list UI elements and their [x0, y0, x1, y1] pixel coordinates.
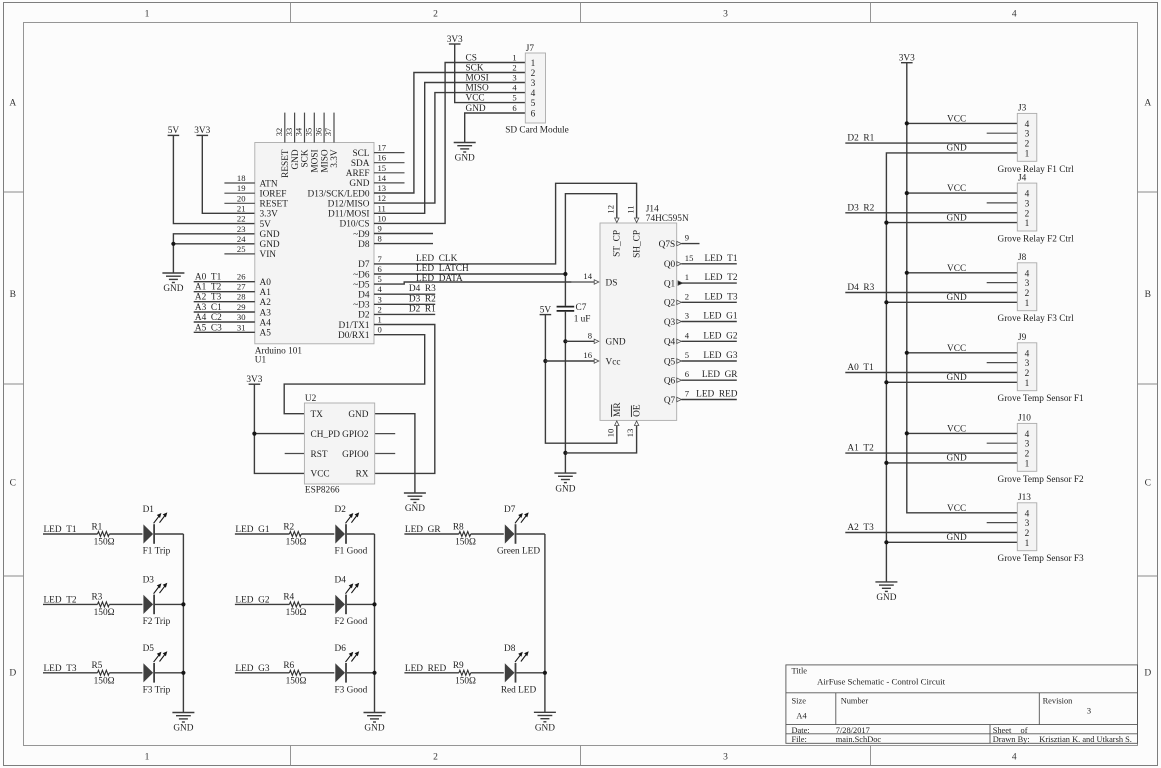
svg-text:A: A — [1144, 99, 1151, 109]
svg-text:DS: DS — [606, 278, 618, 288]
svg-text:SDA: SDA — [351, 159, 370, 169]
wire — [471, 672, 504, 674]
svg-text:8: 8 — [588, 330, 592, 340]
svg-text:A4: A4 — [796, 711, 807, 720]
svg-text:A0 T1: A0 T1 — [847, 363, 874, 373]
svg-text:LED RED: LED RED — [696, 390, 738, 400]
wire ~D9 stub — [374, 233, 433, 235]
svg-text:2: 2 — [433, 753, 438, 763]
svg-text:GND: GND — [291, 149, 301, 169]
net D3_R2 to J4 — [845, 203, 1017, 213]
svg-text:D2: D2 — [335, 505, 347, 515]
svg-text:GND: GND — [947, 373, 967, 383]
svg-text:A3: A3 — [260, 308, 272, 318]
LED D3 — [143, 575, 171, 627]
svg-text:Q1: Q1 — [664, 279, 676, 289]
svg-text:U1: U1 — [255, 356, 267, 366]
svg-text:11: 11 — [625, 205, 635, 213]
pin 3 stub J4 — [987, 202, 1018, 204]
svg-text:D4 R3: D4 R3 — [847, 283, 874, 293]
junction — [884, 221, 888, 225]
svg-text:1: 1 — [531, 59, 536, 69]
wire GND J7 pin6 — [465, 113, 526, 143]
net VCC label J4 — [947, 184, 966, 194]
svg-text:GND: GND — [173, 724, 193, 734]
svg-text:R3: R3 — [91, 593, 102, 603]
svg-text:F3 Good: F3 Good — [335, 685, 368, 695]
svg-text:F1 Good: F1 Good — [335, 547, 368, 557]
svg-text:150Ω: 150Ω — [455, 677, 476, 687]
wire OE riser to GND — [565, 426, 636, 453]
svg-text:VCC: VCC — [947, 504, 966, 514]
net D2_R1 — [374, 304, 436, 314]
svg-text:D1: D1 — [143, 505, 155, 515]
wire GND pin 8 — [565, 340, 595, 342]
wire GND to J10 — [886, 462, 1017, 464]
wire — [109, 533, 142, 535]
net LED_CLK wire D7 to SH_CP — [374, 183, 637, 264]
svg-text:MOSI: MOSI — [466, 74, 489, 84]
svg-text:3: 3 — [378, 294, 382, 304]
wire — [347, 603, 375, 605]
svg-text:13: 13 — [378, 183, 387, 193]
net LED_G3 — [235, 664, 290, 674]
svg-text:F1 Trip: F1 Trip — [143, 547, 171, 557]
svg-text:2: 2 — [1025, 209, 1030, 219]
wire GND rail (grove) — [886, 153, 1017, 582]
svg-text:10: 10 — [605, 429, 615, 438]
svg-text:2: 2 — [531, 69, 536, 79]
svg-text:2: 2 — [1025, 289, 1030, 299]
svg-text:3: 3 — [723, 753, 728, 763]
svg-text:D10/CS: D10/CS — [340, 220, 370, 230]
svg-text:3: 3 — [723, 9, 728, 19]
svg-text:5: 5 — [378, 274, 382, 284]
svg-text:J10: J10 — [1018, 414, 1031, 424]
net GND label J8 — [947, 293, 967, 303]
ground (ESP8266) — [404, 493, 426, 514]
svg-text:3.3V: 3.3V — [260, 210, 279, 220]
net A4_C2 — [194, 313, 255, 323]
junction — [905, 121, 909, 125]
svg-text:J3: J3 — [1018, 104, 1027, 114]
LED D1 — [143, 505, 171, 557]
wire D0/RX1 to ESP TX — [284, 335, 425, 414]
svg-text:LED G1: LED G1 — [235, 525, 269, 535]
svg-text:GND: GND — [947, 293, 967, 303]
wire LED column 1 ground rail — [182, 534, 184, 713]
power 3V3 (grove rail) — [899, 54, 915, 64]
pin GPIO0 stub — [375, 453, 396, 455]
net A1_T2 — [194, 283, 255, 293]
svg-text:Drawn By:: Drawn By: — [993, 735, 1030, 744]
svg-text:4: 4 — [1025, 430, 1030, 440]
svg-text:3.3V: 3.3V — [330, 149, 340, 168]
connector J8 Grove Relay F3 Ctrl — [998, 253, 1075, 324]
resistor R5 150ohm — [91, 661, 114, 686]
svg-text:LED G3: LED G3 — [703, 351, 737, 361]
svg-text:F2 Trip: F2 Trip — [143, 617, 171, 627]
svg-text:R2: R2 — [283, 522, 294, 532]
svg-text:5V: 5V — [540, 305, 552, 315]
svg-text:D13/SCK/LED0: D13/SCK/LED0 — [308, 189, 370, 199]
svg-text:11: 11 — [378, 203, 386, 213]
wire 3V3 to CH_PD and VCC — [254, 384, 304, 473]
svg-text:J13: J13 — [1018, 493, 1031, 503]
svg-text:22: 22 — [237, 214, 246, 224]
power 3V3 (Arduino) — [194, 126, 210, 136]
junction — [543, 359, 547, 363]
svg-text:IOREF: IOREF — [260, 190, 287, 200]
net LED_RED — [404, 664, 459, 674]
Arduino 101 U1 — [224, 113, 404, 366]
svg-text:LED G2: LED G2 — [703, 331, 737, 341]
svg-text:D11/MOSI: D11/MOSI — [328, 210, 370, 220]
svg-text:LED G2: LED G2 — [235, 595, 269, 605]
svg-text:2: 2 — [378, 304, 382, 314]
svg-text:2: 2 — [433, 9, 438, 19]
svg-text:29: 29 — [237, 302, 246, 312]
junction — [372, 671, 376, 675]
svg-text:A5: A5 — [260, 329, 272, 339]
wire — [109, 603, 142, 605]
svg-text:LED T2: LED T2 — [704, 273, 737, 283]
svg-text:D12/MISO: D12/MISO — [328, 199, 370, 209]
junction — [884, 300, 888, 304]
svg-text:main.SchDoc: main.SchDoc — [836, 735, 882, 744]
net A5_C3 — [194, 323, 255, 333]
svg-text:MOSI: MOSI — [311, 149, 321, 172]
net A2_T3 to J13 — [845, 523, 1017, 533]
svg-text:~D3: ~D3 — [353, 301, 370, 311]
svg-text:of: of — [1021, 726, 1028, 735]
svg-text:1: 1 — [1025, 299, 1030, 309]
svg-text:4: 4 — [1025, 120, 1030, 130]
svg-text:AREF: AREF — [346, 169, 370, 179]
wire VCC to J10 — [907, 432, 1018, 434]
svg-text:3V3: 3V3 — [899, 54, 915, 64]
svg-text:74HC595N: 74HC595N — [646, 214, 689, 224]
svg-text:5V: 5V — [260, 220, 272, 230]
svg-text:~D9: ~D9 — [353, 230, 370, 240]
net VCC label J3 — [947, 114, 966, 124]
svg-text:4: 4 — [1025, 269, 1030, 279]
net LED_GR from Q6 — [677, 369, 738, 382]
svg-text:4: 4 — [1025, 349, 1030, 359]
junction — [905, 351, 909, 355]
svg-text:150Ω: 150Ω — [94, 677, 115, 687]
svg-text:2: 2 — [1025, 140, 1030, 150]
svg-text:ATN: ATN — [260, 179, 278, 189]
svg-text:150Ω: 150Ω — [94, 608, 115, 618]
svg-text:LED CLK: LED CLK — [416, 254, 458, 264]
svg-text:VCC: VCC — [311, 470, 330, 480]
svg-text:4: 4 — [1025, 509, 1030, 519]
svg-text:28: 28 — [237, 292, 246, 302]
svg-text:LED T3: LED T3 — [704, 292, 737, 302]
ground (SD card) — [454, 143, 476, 164]
LED D7 — [497, 505, 540, 557]
svg-text:3: 3 — [531, 79, 536, 89]
svg-text:Size: Size — [792, 697, 807, 706]
wire D8 stub — [374, 243, 433, 245]
svg-text:U2: U2 — [305, 394, 317, 404]
wire ESP GND — [375, 414, 415, 493]
svg-text:LED T1: LED T1 — [704, 254, 737, 264]
svg-text:1 uF: 1 uF — [574, 315, 591, 325]
svg-text:30: 30 — [237, 312, 246, 322]
LED D2 — [335, 505, 368, 557]
svg-text:A3 C1: A3 C1 — [195, 303, 222, 313]
svg-text:ESP8266: ESP8266 — [305, 486, 340, 496]
svg-text:150Ω: 150Ω — [286, 677, 307, 687]
svg-text:SD Card Module: SD Card Module — [505, 125, 569, 135]
svg-text:VCC: VCC — [466, 94, 485, 104]
svg-text:4: 4 — [531, 89, 536, 99]
LED D4 — [335, 575, 368, 627]
net GND label J10 — [947, 454, 967, 464]
wire VCC to J3 — [907, 122, 1018, 124]
svg-text:D4: D4 — [358, 291, 370, 301]
svg-text:Grove Relay F3 Ctrl: Grove Relay F3 Ctrl — [998, 314, 1075, 324]
svg-text:32: 32 — [274, 128, 284, 137]
wire — [301, 603, 334, 605]
pin GPIO2 stub — [375, 433, 396, 435]
pin 3 stub J10 — [987, 442, 1018, 444]
svg-text:D1/TX1: D1/TX1 — [339, 321, 370, 331]
svg-text:18: 18 — [237, 173, 246, 183]
svg-text:3V3: 3V3 — [194, 126, 210, 136]
wire VCC to J9 — [907, 352, 1018, 354]
svg-text:12: 12 — [606, 205, 616, 214]
net GND label J4 — [947, 213, 967, 223]
svg-text:LED DATA: LED DATA — [416, 274, 463, 284]
svg-text:CH_PD: CH_PD — [311, 430, 341, 440]
svg-text:35: 35 — [304, 128, 314, 137]
svg-text:Grove Temp Sensor F2: Grove Temp Sensor F2 — [998, 475, 1085, 485]
wire — [347, 533, 375, 535]
wire CS D10 to J7 pin1 — [374, 63, 525, 224]
svg-text:10: 10 — [378, 213, 387, 223]
svg-text:D8: D8 — [358, 240, 370, 250]
svg-text:150Ω: 150Ω — [286, 538, 307, 548]
svg-text:D7: D7 — [504, 505, 516, 515]
svg-text:C: C — [1145, 479, 1151, 489]
svg-text:MISO: MISO — [320, 149, 330, 173]
svg-text:A: A — [9, 99, 16, 109]
junction — [884, 461, 888, 465]
net LED_G2 from Q4 — [677, 330, 738, 343]
power 5V (shift register) — [540, 305, 552, 315]
wire MISO D12 to J7 pin4 — [374, 93, 525, 204]
svg-text:Krisztian K. and Utkarsh S.: Krisztian K. and Utkarsh S. — [1039, 735, 1132, 744]
wire GND pin 23 — [173, 234, 254, 273]
resistor R4 150ohm — [283, 593, 306, 618]
wire — [347, 672, 375, 674]
wire GND pin 24 — [173, 243, 254, 245]
pin 3 stub J13 — [987, 522, 1018, 524]
svg-text:5: 5 — [685, 350, 689, 360]
junction — [905, 431, 909, 435]
svg-text:4: 4 — [685, 330, 690, 340]
svg-text:Grove Relay F2 Ctrl: Grove Relay F2 Ctrl — [998, 235, 1075, 245]
resistor R3 150ohm — [91, 593, 114, 618]
svg-text:LED T3: LED T3 — [44, 664, 77, 674]
svg-text:SCK: SCK — [301, 149, 311, 167]
svg-text:LED T1: LED T1 — [44, 525, 77, 535]
svg-text:Red LED: Red LED — [501, 685, 537, 695]
svg-text:6: 6 — [512, 103, 517, 113]
wire ST_CP riser — [565, 194, 616, 306]
LED D5 — [143, 644, 171, 696]
svg-text:LED LATCH: LED LATCH — [416, 264, 469, 274]
svg-text:GND: GND — [364, 724, 384, 734]
wire — [301, 672, 334, 674]
svg-text:Q5: Q5 — [664, 357, 676, 367]
svg-text:19: 19 — [237, 183, 246, 193]
svg-text:F2 Good: F2 Good — [335, 617, 368, 627]
svg-text:A4 C2: A4 C2 — [195, 313, 222, 323]
svg-text:Q3: Q3 — [664, 318, 676, 328]
wire VCC to J4 — [907, 192, 1018, 194]
svg-text:150Ω: 150Ω — [455, 538, 476, 548]
svg-text:LED T2: LED T2 — [44, 595, 77, 605]
svg-text:D0/RX1: D0/RX1 — [338, 331, 370, 341]
svg-text:GND: GND — [947, 533, 967, 543]
svg-text:Grove Temp Sensor F3: Grove Temp Sensor F3 — [998, 554, 1085, 564]
wire — [155, 603, 183, 605]
resistor R9 150ohm — [453, 661, 476, 686]
svg-text:36: 36 — [313, 127, 323, 136]
wire D1/TX1 to ESP RX — [374, 325, 435, 474]
svg-text:3: 3 — [685, 311, 689, 321]
svg-text:4: 4 — [1012, 753, 1017, 763]
net GND label J13 — [947, 533, 967, 543]
LED D6 — [335, 644, 368, 696]
svg-text:GND: GND — [535, 724, 555, 734]
junction — [543, 671, 547, 675]
svg-text:6: 6 — [378, 264, 383, 274]
wire Vcc pin 16 — [545, 360, 595, 362]
junction — [181, 602, 185, 606]
svg-text:27: 27 — [237, 282, 246, 292]
svg-text:9: 9 — [685, 233, 689, 243]
svg-text:GND: GND — [947, 213, 967, 223]
wire SCK D13 to J7 pin2 — [374, 73, 525, 194]
svg-text:AirFuse Schematic - Control Ci: AirFuse Schematic - Control Circuit — [817, 676, 946, 686]
net LED_T1 from Q0 — [677, 253, 738, 266]
svg-text:17: 17 — [378, 143, 387, 153]
svg-text:SH_CP: SH_CP — [632, 230, 642, 258]
svg-text:13: 13 — [625, 429, 635, 438]
svg-text:R5: R5 — [91, 661, 102, 671]
svg-text:F3 Trip: F3 Trip — [143, 685, 171, 695]
svg-text:File:: File: — [792, 735, 807, 744]
wire — [301, 533, 334, 535]
pin Q7S stub — [677, 233, 700, 246]
svg-text:25: 25 — [237, 244, 246, 254]
pin 3 stub J3 — [987, 132, 1018, 134]
svg-text:A5 C3: A5 C3 — [195, 323, 222, 333]
svg-text:Green LED: Green LED — [497, 547, 540, 557]
net A1_T2 to J10 — [845, 444, 1017, 454]
svg-text:1: 1 — [1025, 219, 1030, 229]
svg-text:3: 3 — [512, 73, 516, 83]
svg-text:Revision: Revision — [1043, 697, 1074, 706]
svg-text:4: 4 — [512, 83, 517, 93]
svg-text:GND: GND — [466, 104, 486, 114]
svg-text:3: 3 — [1025, 199, 1030, 209]
svg-text:3: 3 — [1025, 359, 1030, 369]
svg-text:16: 16 — [583, 350, 592, 360]
wire — [109, 672, 142, 674]
svg-text:D: D — [9, 669, 16, 679]
svg-text:3: 3 — [1025, 130, 1030, 140]
svg-text:MR: MR — [613, 402, 623, 417]
svg-text:R1: R1 — [91, 522, 102, 532]
svg-text:23: 23 — [237, 224, 246, 234]
svg-text:Q2: Q2 — [664, 299, 676, 309]
net LED_G3 from Q5 — [677, 350, 738, 363]
net LED_T2 — [43, 595, 98, 605]
svg-text:~D5: ~D5 — [353, 280, 370, 290]
svg-text:5V: 5V — [168, 126, 180, 136]
connector J7 SD Card Module — [505, 44, 569, 135]
svg-text:RESET: RESET — [281, 149, 291, 178]
svg-text:37: 37 — [323, 127, 333, 136]
svg-text:LED RED: LED RED — [405, 664, 447, 674]
wire VCC 3V3 to J7 pin5 — [455, 44, 526, 103]
wire — [471, 533, 504, 535]
wire MOSI D11 to J7 pin3 — [374, 83, 525, 214]
svg-text:R4: R4 — [283, 593, 294, 603]
wire VCC to J8 — [907, 272, 1018, 274]
svg-text:1: 1 — [1025, 539, 1030, 549]
svg-text:1: 1 — [685, 272, 689, 282]
svg-text:3V3: 3V3 — [246, 375, 262, 385]
svg-text:Number: Number — [841, 697, 869, 706]
svg-text:A1: A1 — [260, 288, 272, 298]
junction — [563, 451, 567, 455]
svg-text:OE: OE — [633, 404, 643, 417]
power 5V (Arduino) — [168, 126, 180, 136]
svg-text:Date:: Date: — [792, 726, 810, 735]
svg-text:GND: GND — [606, 338, 626, 348]
svg-text:2: 2 — [512, 63, 516, 73]
svg-text:4: 4 — [1025, 190, 1030, 200]
svg-text:GND: GND — [260, 240, 280, 250]
svg-text:14: 14 — [378, 173, 387, 183]
junction — [905, 191, 909, 195]
svg-text:34: 34 — [294, 127, 304, 136]
svg-text:J7: J7 — [526, 44, 535, 54]
svg-text:R9: R9 — [453, 661, 464, 671]
svg-text:150Ω: 150Ω — [286, 608, 307, 618]
shift register J14 74HC595N — [572, 205, 689, 438]
svg-text:D4: D4 — [335, 575, 347, 585]
svg-text:14: 14 — [583, 271, 592, 281]
svg-text:Q4: Q4 — [664, 338, 676, 348]
net LED_T1 — [43, 525, 98, 535]
resistor R2 150ohm — [283, 522, 306, 547]
resistor R1 150ohm — [91, 522, 114, 547]
net VCC label J9 — [947, 344, 966, 354]
power 3V3 (ESP8266) — [246, 375, 262, 385]
svg-text:VCC: VCC — [947, 114, 966, 124]
svg-text:VCC: VCC — [947, 424, 966, 434]
net D3_R2 — [374, 294, 436, 304]
svg-text:RST: RST — [311, 450, 328, 460]
